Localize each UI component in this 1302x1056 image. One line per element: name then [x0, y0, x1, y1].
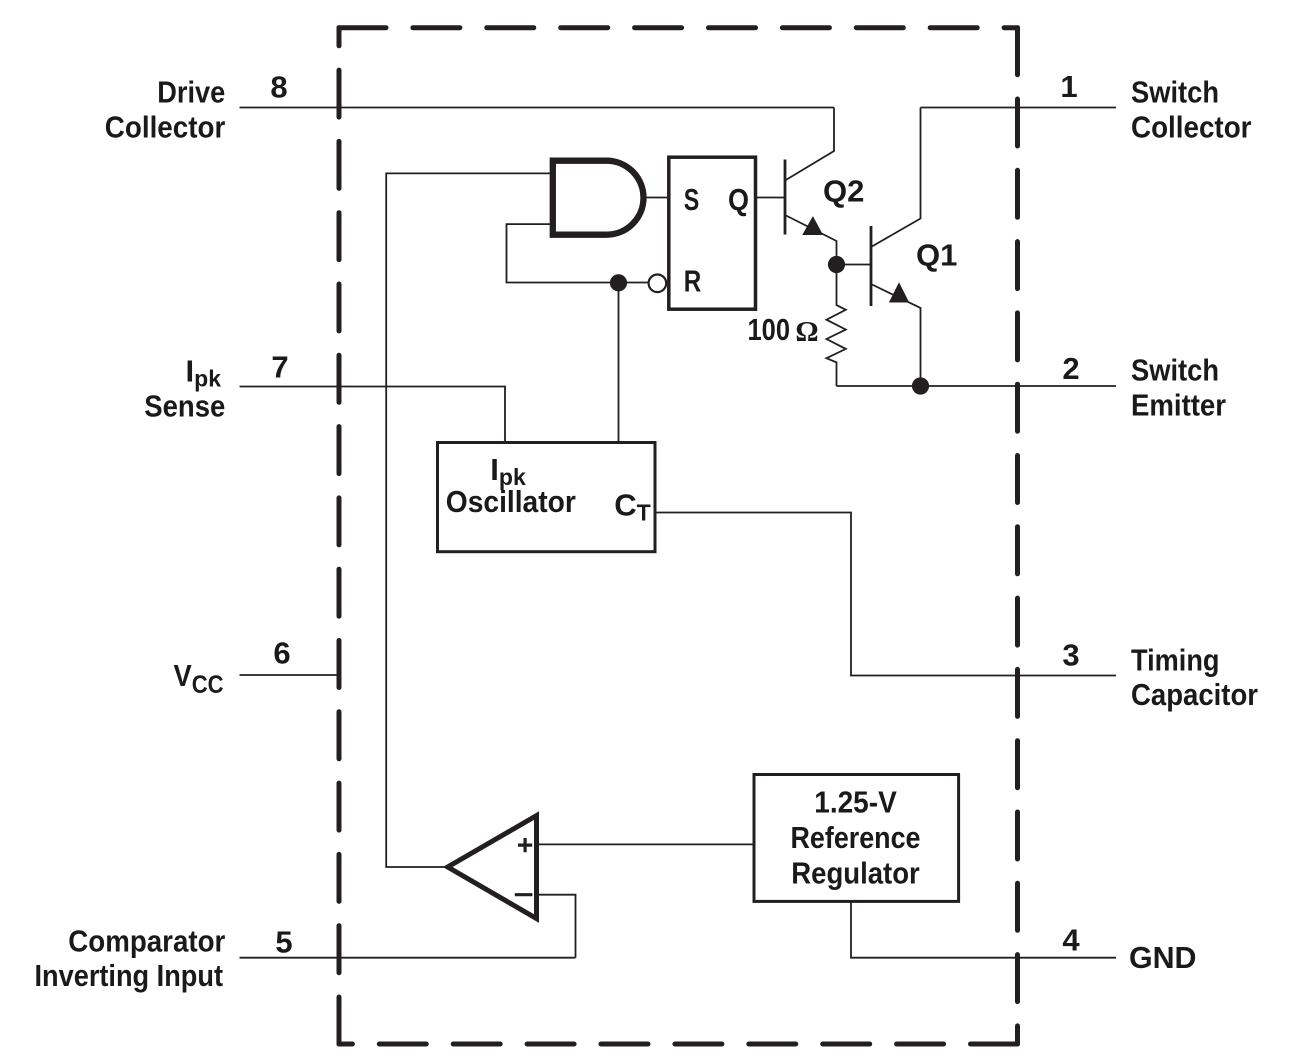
svg-text:Switch: Switch	[1131, 75, 1219, 110]
svg-text:Regulator: Regulator	[791, 856, 920, 891]
svg-text:8: 8	[270, 70, 287, 105]
svg-text:Drive: Drive	[157, 75, 225, 110]
svg-text:Capacitor: Capacitor	[1131, 677, 1258, 712]
svg-text:Emitter: Emitter	[1131, 387, 1226, 422]
svg-text:Ω: Ω	[795, 316, 818, 348]
svg-text:Q: Q	[728, 182, 749, 217]
svg-text:Inverting Input: Inverting Input	[35, 958, 224, 993]
svg-text:3: 3	[1062, 638, 1079, 673]
svg-text:Comparator: Comparator	[68, 923, 225, 958]
svg-text:Collector: Collector	[1131, 110, 1252, 145]
svg-text:1: 1	[1060, 69, 1077, 104]
svg-text:4: 4	[1062, 923, 1080, 958]
svg-text:6: 6	[273, 636, 290, 671]
svg-text:Switch: Switch	[1131, 352, 1219, 387]
svg-text:5: 5	[275, 925, 292, 960]
svg-text:S: S	[684, 182, 700, 217]
svg-text:1.25-V: 1.25-V	[814, 785, 897, 820]
svg-text:Q2: Q2	[823, 174, 864, 209]
svg-text:GND: GND	[1129, 940, 1197, 975]
svg-text:Collector: Collector	[105, 110, 226, 145]
svg-text:7: 7	[271, 350, 288, 385]
svg-text:100: 100	[748, 312, 791, 347]
svg-text:Sense: Sense	[144, 388, 225, 423]
svg-text:R: R	[684, 263, 702, 298]
svg-text:Q1: Q1	[916, 238, 957, 273]
svg-text:Oscillator: Oscillator	[446, 484, 576, 519]
svg-text:Reference: Reference	[791, 820, 921, 855]
svg-text:Timing: Timing	[1131, 642, 1220, 677]
svg-text:2: 2	[1062, 351, 1079, 386]
